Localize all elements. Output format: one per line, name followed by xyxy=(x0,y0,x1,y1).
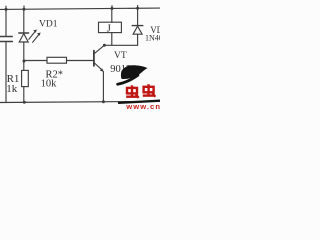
svg-text:VD1: VD1 xyxy=(39,19,58,29)
wire VD1 upper lead xyxy=(23,9,25,33)
wire bottom rail xyxy=(0,101,160,102)
wire relay bottom lead xyxy=(111,33,113,46)
junction dot collector node xyxy=(103,44,106,47)
resistor R2 xyxy=(47,57,67,63)
junction dot mid node (base network) xyxy=(23,60,26,63)
junction stub above node B xyxy=(23,6,25,9)
capacitor C1 xyxy=(0,37,12,42)
wire top supply rail xyxy=(0,8,160,9)
wire capacitor upper lead xyxy=(5,9,7,36)
junction dot emitter bottom xyxy=(102,100,105,103)
wire mid node to R2 xyxy=(24,60,47,62)
junction dot node B (VD1 / top rail) xyxy=(23,8,26,11)
junction stub above node C xyxy=(111,6,113,9)
watermark bug character 2 xyxy=(143,84,155,97)
resistor R1 xyxy=(22,70,29,86)
diode VD2 xyxy=(132,26,143,35)
wire collector rail xyxy=(104,44,137,46)
junction dot node A (cap / top rail) xyxy=(5,8,8,11)
junction dot node C (relay J / top rail) xyxy=(111,7,114,10)
watermark banner rule xyxy=(118,101,160,103)
wire VD1 to mid node xyxy=(23,42,25,70)
watermark hat xyxy=(121,65,148,79)
light arrow 2 of VD1 xyxy=(33,33,41,43)
wire capacitor lower lead xyxy=(5,42,7,103)
junction stub above node A xyxy=(5,6,7,9)
wire R1 to bottom rail xyxy=(23,87,25,103)
diode VD2 upper lead xyxy=(137,8,139,25)
diode VD2 lower lead xyxy=(137,34,139,45)
watermark hat brim xyxy=(118,75,138,84)
svg-text:1N4001: 1N4001 xyxy=(145,34,160,43)
watermark bug character 1 xyxy=(126,85,138,98)
svg-text:10k: 10k xyxy=(41,79,58,90)
svg-text:1k: 1k xyxy=(6,83,18,95)
svg-text:J: J xyxy=(107,22,112,34)
transistor VT xyxy=(94,45,104,72)
wire relay top lead xyxy=(111,9,113,23)
svg-text:www.cn: www.cn xyxy=(125,102,160,110)
wire emitter to bottom rail xyxy=(102,72,104,102)
junction dot node D (VD2 / top rail) xyxy=(136,7,139,10)
junction stub above node D xyxy=(137,6,139,9)
relay coil J xyxy=(99,22,122,32)
wire R2 to base of VT xyxy=(67,60,94,62)
light arrow 1 of VD1 xyxy=(29,30,37,40)
svg-text:VT: VT xyxy=(114,51,127,61)
junction dot R1 bottom xyxy=(23,101,26,104)
photodiode VD1 xyxy=(19,33,29,42)
